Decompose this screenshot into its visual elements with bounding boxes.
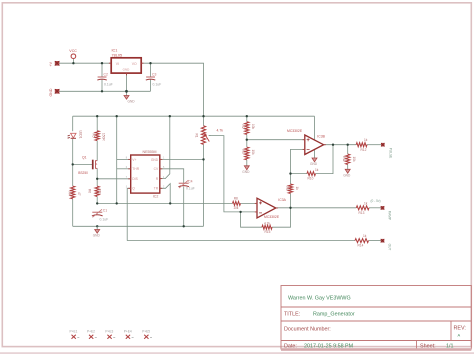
svg-text:R1: R1 xyxy=(195,134,199,138)
svg-text:R13: R13 xyxy=(359,211,365,215)
ground symbol below divider xyxy=(242,166,250,174)
wire R5 bottom to Q1 drain xyxy=(96,141,98,161)
wire 555 output rail xyxy=(127,240,355,242)
wire CV pin to C4 xyxy=(160,169,184,183)
wire C4 bottom to gnd rail xyxy=(183,187,185,227)
svg-text:C3: C3 xyxy=(152,72,156,76)
svg-text:2017-01-25 9:58 PM: 2017-01-25 9:58 PM xyxy=(304,343,354,349)
wire gnd rail xyxy=(73,225,204,227)
transistor Q1 BS250 xyxy=(78,156,97,175)
ground symbol below IC1 xyxy=(124,96,135,104)
svg-text:1k: 1k xyxy=(364,201,368,205)
wire IC3A feedback xyxy=(241,212,262,227)
svg-text:Sheet:: Sheet: xyxy=(420,343,436,349)
svg-text:R2: R2 xyxy=(241,125,245,129)
wire divider stems xyxy=(246,116,248,122)
resistor R14 1k (output row 3) xyxy=(355,234,369,248)
svg-text:1/1: 1/1 xyxy=(446,343,454,349)
svg-text:10k: 10k xyxy=(251,150,255,156)
pad PULSE output xyxy=(381,143,393,158)
svg-text:R4: R4 xyxy=(67,192,71,196)
wire R11 stems xyxy=(347,145,349,154)
svg-text:P+E1: P+E1 xyxy=(70,330,78,334)
svg-text:TR: TR xyxy=(154,187,159,191)
svg-text:TITLE:: TITLE: xyxy=(284,312,300,318)
resistor R12 1k (output row 1) xyxy=(356,138,368,152)
pad OUT output xyxy=(381,239,392,250)
node divider top xyxy=(246,115,248,117)
svg-text:R12: R12 xyxy=(361,148,367,152)
svg-text:GND: GND xyxy=(343,173,351,177)
svg-text:R15: R15 xyxy=(265,230,271,234)
wire VO to trimpot column xyxy=(141,63,203,126)
svg-text:R9: R9 xyxy=(285,187,289,191)
node C1 gnd xyxy=(96,225,98,227)
node LED/R4/gate xyxy=(72,163,74,165)
svg-text:(0 - 5v): (0 - 5v) xyxy=(371,199,381,203)
mounting pads P+E1..P+E5 xyxy=(70,330,151,334)
svg-text:OUT: OUT xyxy=(387,244,391,251)
resistor R4 47 (vertical) xyxy=(67,186,81,199)
svg-text:NE555M: NE555M xyxy=(143,150,157,154)
resistor R2 10k (divider top) xyxy=(241,122,255,135)
pin stubs IC1 xyxy=(109,63,144,75)
wire IC3A output xyxy=(276,207,357,209)
wire trimpot bottom to gnd rail xyxy=(203,144,205,226)
node VO feed xyxy=(202,115,204,117)
ground symbol below IC3B xyxy=(310,158,318,166)
node C1/R6 xyxy=(96,202,98,204)
svg-text:4.7k: 4.7k xyxy=(264,221,270,225)
svg-text:GND: GND xyxy=(93,234,101,238)
wire R6 bottom to ramp rail xyxy=(96,197,98,204)
wire VCC rail xyxy=(73,115,315,117)
resistor R11 10k (vertical) xyxy=(342,154,356,165)
svg-text:R11: R11 xyxy=(342,156,346,162)
node R11 top xyxy=(347,144,349,146)
svg-text:78L05: 78L05 xyxy=(112,53,123,57)
svg-text:A: A xyxy=(458,333,461,338)
resistor R3 10k (divider bottom) xyxy=(241,147,255,160)
node IC1 gnd xyxy=(125,90,128,93)
wire +V to IC1 VI xyxy=(60,62,112,64)
svg-text:1k: 1k xyxy=(315,168,319,172)
svg-text:0.1uF: 0.1uF xyxy=(153,82,162,86)
svg-text:47: 47 xyxy=(77,192,81,196)
wire LED branch xyxy=(72,116,74,131)
wire gate of Q1 xyxy=(73,163,92,165)
capacitor C3 xyxy=(146,72,161,86)
svg-text:BS250: BS250 xyxy=(78,171,88,175)
svg-text:GND: GND xyxy=(128,100,136,104)
svg-text:RAMP: RAMP xyxy=(387,211,391,220)
svg-text:150R: 150R xyxy=(102,133,106,141)
wire IC3B V- pin to gnd xyxy=(314,150,316,158)
svg-text:GND: GND xyxy=(310,162,318,166)
svg-text:V+: V+ xyxy=(132,158,136,162)
svg-text:Ramp_Generator: Ramp_Generator xyxy=(313,312,355,318)
op-amp IC3B MC3302E xyxy=(287,129,326,154)
wire C3 stems xyxy=(150,63,152,76)
svg-text:REV:: REV: xyxy=(454,326,466,332)
wire R5 stem top xyxy=(96,116,98,131)
wire IC3B feedback R10 xyxy=(291,173,308,175)
svg-text:GND: GND xyxy=(123,68,131,72)
node reset column top xyxy=(169,115,171,117)
svg-text:P+E2: P+E2 xyxy=(87,330,95,334)
svg-text:4.7k: 4.7k xyxy=(217,129,224,133)
node C2 bottom xyxy=(101,90,103,92)
svg-text:Document Number:: Document Number: xyxy=(284,327,331,333)
resistor R10 1k (IC3B feedback) xyxy=(307,168,319,180)
wire R9 column xyxy=(290,174,292,184)
connector +V xyxy=(49,61,59,67)
svg-text:CV: CV xyxy=(154,167,159,171)
svg-text:P+E3: P+E3 xyxy=(105,330,113,334)
svg-text:GND: GND xyxy=(151,158,159,162)
wire V+ / THR column of IC2 xyxy=(116,116,118,203)
ground symbol below R11 xyxy=(343,169,351,177)
resistor R9 1k (vertical) xyxy=(285,184,299,194)
svg-text:100: 100 xyxy=(98,189,102,195)
svg-text:VI: VI xyxy=(116,62,119,66)
bottom shadow line xyxy=(0,352,474,354)
wire C2 stems xyxy=(101,63,103,76)
svg-text:C1: C1 xyxy=(103,209,107,213)
svg-text:MC3302E: MC3302E xyxy=(287,129,303,133)
node IC2 V+ xyxy=(116,115,118,117)
wire IC3B V+ pin xyxy=(314,116,316,140)
node R5 top xyxy=(96,115,98,117)
svg-text:P+E4: P+E4 xyxy=(124,330,132,334)
resistor R6 100 (vertical) xyxy=(88,186,102,196)
svg-text:1k: 1k xyxy=(363,234,367,238)
resistor R5 150R (vertical) xyxy=(92,131,106,142)
svg-text:R10: R10 xyxy=(308,176,314,180)
wire DIS pin of IC2 xyxy=(97,178,131,180)
node divider mid xyxy=(246,139,248,141)
wire R8 to IC3A + input xyxy=(241,202,258,204)
svg-text:IC3A: IC3A xyxy=(278,198,286,202)
svg-text:0.1uF: 0.1uF xyxy=(186,186,195,190)
capacitor C1 0.1uF (variable) xyxy=(92,209,108,222)
resistor R15 4.7k (IC3A feedback) xyxy=(262,221,272,234)
svg-text:Q: Q xyxy=(132,187,135,191)
svg-text:0.1uF: 0.1uF xyxy=(100,218,109,222)
node DIS/source xyxy=(96,178,98,180)
svg-text:Q1: Q1 xyxy=(82,156,87,160)
svg-text:THR: THR xyxy=(132,167,139,171)
LED LED1 xyxy=(68,131,83,139)
svg-text:+V: +V xyxy=(49,61,53,66)
pin stubs IC2 xyxy=(128,159,162,188)
svg-text:R8: R8 xyxy=(234,197,238,201)
wire R4 bottom to gnd rail xyxy=(72,199,74,227)
svg-text:LED1: LED1 xyxy=(79,131,83,139)
node IC3A - input xyxy=(239,211,241,213)
svg-text:P+E5: P+E5 xyxy=(142,330,150,334)
resistor R13 1k (output row 2) xyxy=(356,201,369,215)
wire R13 to pad xyxy=(369,207,381,209)
supply VCC symbol xyxy=(69,49,77,59)
node VCC/+V junction xyxy=(72,62,74,64)
trimpot R1 4.7k xyxy=(195,126,224,145)
svg-text:C2: C2 xyxy=(104,72,108,76)
svg-text:R5: R5 xyxy=(92,134,96,138)
capacitor C4 0.1uF (variable) xyxy=(178,180,194,191)
svg-text:GND: GND xyxy=(49,88,53,96)
svg-text:VCC: VCC xyxy=(69,49,77,53)
wire GND input rail xyxy=(60,90,151,92)
node C3 top xyxy=(149,62,151,64)
wire TR pin down to ramp rail xyxy=(160,184,170,204)
wire divider node to IC3B + input xyxy=(247,139,305,141)
wire IC1 GND pin xyxy=(126,73,128,95)
svg-text:10k: 10k xyxy=(352,157,356,163)
svg-text:Warren W. Gay VE3WWG: Warren W. Gay VE3WWG xyxy=(288,296,351,302)
pin stubs op-amps xyxy=(255,140,326,212)
svg-text:1k: 1k xyxy=(295,187,299,191)
wire IC2 GND pin to trimpot column xyxy=(160,158,204,160)
svg-text:C4: C4 xyxy=(188,180,192,184)
node C2 top xyxy=(101,62,103,64)
capacitor C2 xyxy=(97,72,112,86)
svg-text:GND: GND xyxy=(242,170,250,174)
node THR xyxy=(116,202,118,204)
node IC3A out xyxy=(289,207,291,209)
wire ramp rail (THR node) xyxy=(97,202,232,204)
svg-text:1k: 1k xyxy=(364,138,368,142)
wire R12 to pad xyxy=(367,144,381,146)
svg-text:VO: VO xyxy=(132,62,137,66)
svg-text:0.1uF: 0.1uF xyxy=(104,82,113,86)
wire Q output of IC2 xyxy=(127,188,131,240)
wire R14 to pad xyxy=(369,240,382,242)
title block xyxy=(281,286,471,350)
svg-text:R14: R14 xyxy=(358,244,364,248)
node IC2 gnd wire xyxy=(202,158,204,160)
svg-text:10k: 10k xyxy=(251,124,255,130)
pad RAMP output xyxy=(381,206,392,220)
svg-text:R6: R6 xyxy=(88,189,92,193)
node R9 top xyxy=(289,172,291,174)
regulator IC1 78L05 xyxy=(111,48,141,73)
svg-text:PULSE: PULSE xyxy=(389,148,393,158)
node IC3B fb xyxy=(332,144,334,146)
node C4 gnd xyxy=(183,225,185,227)
svg-text:DIS: DIS xyxy=(132,177,138,181)
wire IC3B - input xyxy=(291,149,305,173)
wire IC3B output xyxy=(324,144,357,146)
resistor R8 10k (horizontal, to IC3A +) xyxy=(233,197,241,210)
wire trimpot wiper to IC3A - input xyxy=(209,136,257,212)
pin numbers IC2 xyxy=(126,158,165,189)
svg-text:MC3302E: MC3302E xyxy=(264,215,280,219)
svg-text:Date:: Date: xyxy=(284,343,297,349)
wire VCC stem xyxy=(72,59,74,64)
op-amp IC3A MC3302E xyxy=(257,198,287,219)
timer IC2 NE555M xyxy=(131,150,160,198)
svg-text:IC1: IC1 xyxy=(112,48,118,52)
ground symbol below C1 xyxy=(93,226,101,237)
wire Q1 source down to R6 xyxy=(96,168,98,186)
svg-text:R3: R3 xyxy=(241,150,245,154)
wire R pin (reset) to VCC column xyxy=(160,116,170,178)
connector GND input xyxy=(49,88,59,96)
svg-text:IC2: IC2 xyxy=(153,195,159,199)
node TR xyxy=(169,202,171,204)
svg-text:10k: 10k xyxy=(233,206,239,210)
svg-text:IC3B: IC3B xyxy=(317,135,325,139)
